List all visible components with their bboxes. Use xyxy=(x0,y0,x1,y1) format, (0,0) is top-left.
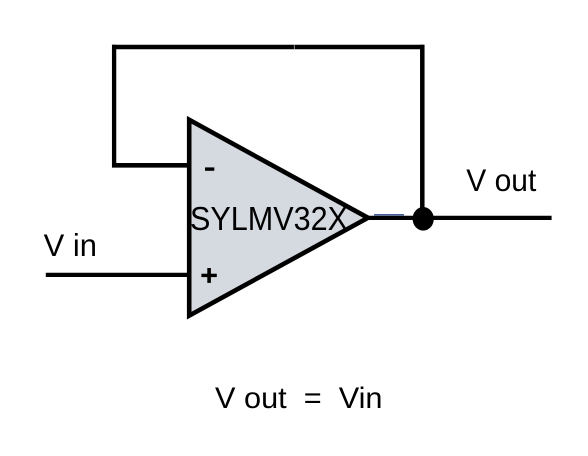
wire feedback top left segment xyxy=(112,45,294,49)
wire output node vertical xyxy=(420,45,425,218)
svg-text:SYLMV32X: SYLMV32X xyxy=(190,201,348,238)
wire V in input xyxy=(46,273,191,277)
op-amp inverting input pin marker - xyxy=(205,167,214,170)
wire feedback left vertical xyxy=(112,45,116,168)
wire feedback top right segment xyxy=(294,45,424,49)
op-amp non-inverting input pin marker + horizontal xyxy=(201,274,216,277)
wire output net highlight (blue) xyxy=(374,214,404,216)
op-amp U1 xyxy=(189,120,368,316)
wire feedback to inverting input xyxy=(112,163,191,168)
svg-text:V in: V in xyxy=(44,227,97,263)
svg-text:V out: V out xyxy=(466,162,536,198)
wire seam artifact on top feedback wire xyxy=(293,45,296,49)
wire output xyxy=(368,216,552,220)
op-amp non-inverting input pin marker + vertical xyxy=(207,268,211,283)
node V out junction dot xyxy=(413,207,434,231)
svg-text:V out = Vin: V out = Vin xyxy=(215,382,383,415)
